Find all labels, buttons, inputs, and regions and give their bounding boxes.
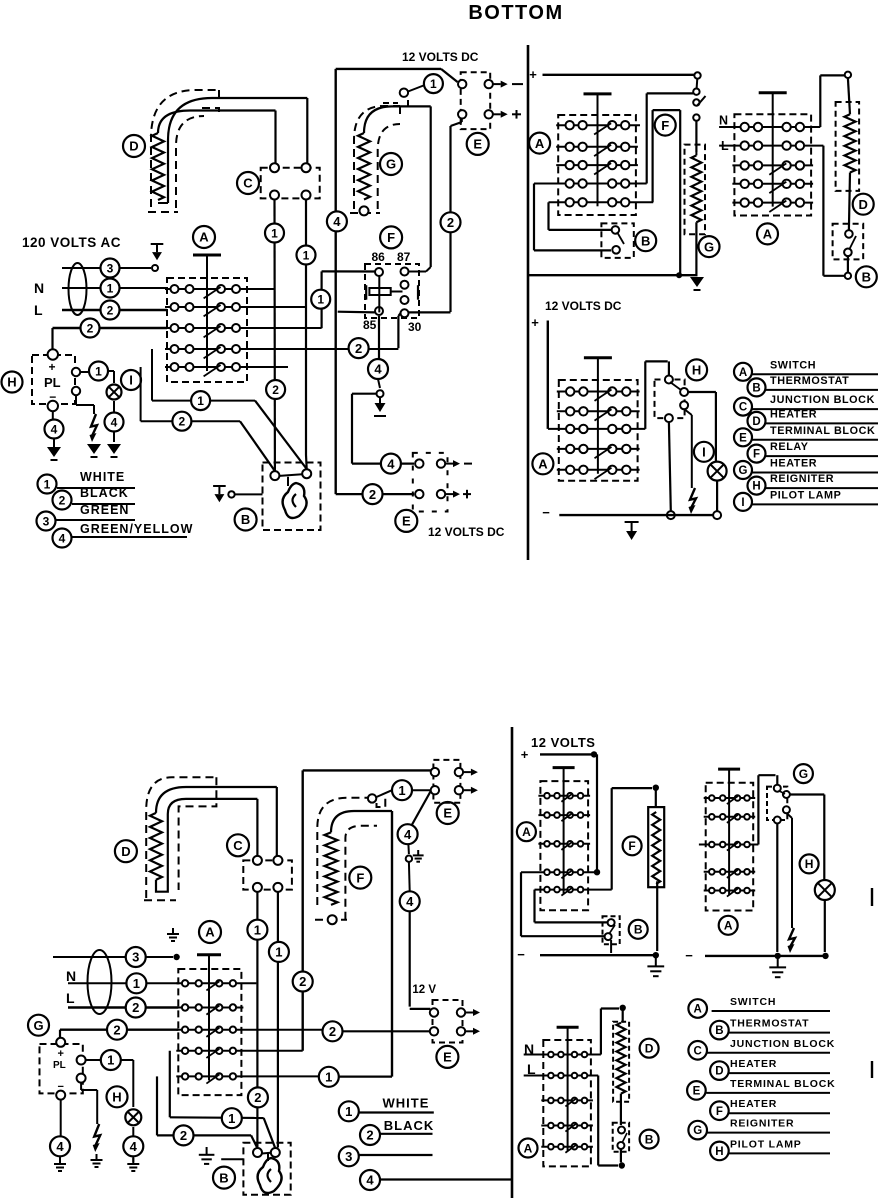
svg-text:1: 1 <box>271 226 278 240</box>
svg-text:1: 1 <box>133 976 140 991</box>
svg-text:+: + <box>48 360 55 374</box>
svg-text:2: 2 <box>254 1090 261 1105</box>
svg-text:E: E <box>443 1050 452 1065</box>
svg-text:2: 2 <box>272 383 279 397</box>
svg-text:4: 4 <box>404 827 412 842</box>
svg-text:B: B <box>219 1170 228 1185</box>
svg-text:WHITE: WHITE <box>80 470 125 484</box>
svg-text:G: G <box>704 239 714 254</box>
svg-text:I: I <box>129 373 133 388</box>
svg-text:PILOT LAMP: PILOT LAMP <box>730 1138 802 1150</box>
svg-text:4: 4 <box>387 456 395 471</box>
svg-text:4: 4 <box>366 1173 374 1188</box>
svg-text:JUNCTION BLOCK: JUNCTION BLOCK <box>770 394 875 406</box>
svg-text:3: 3 <box>43 514 50 528</box>
svg-text:1: 1 <box>197 394 204 408</box>
svg-text:D: D <box>752 416 760 428</box>
svg-text:+: + <box>57 1048 63 1060</box>
svg-text:2: 2 <box>113 1022 120 1037</box>
svg-text:1: 1 <box>325 1069 332 1084</box>
svg-text:F: F <box>661 118 669 133</box>
svg-text:I: I <box>702 444 706 459</box>
svg-text:A: A <box>739 367 747 379</box>
svg-text:3: 3 <box>345 1149 352 1164</box>
svg-text:H: H <box>7 375 16 390</box>
svg-text:2: 2 <box>447 215 454 230</box>
svg-text:30: 30 <box>408 320 422 334</box>
svg-text:86: 86 <box>372 250 386 264</box>
svg-text:E: E <box>473 137 482 152</box>
svg-text:REIGNITER: REIGNITER <box>770 473 834 485</box>
svg-text:A: A <box>694 1004 702 1016</box>
svg-text:E: E <box>739 432 747 444</box>
svg-text:JUNCTION BLOCK: JUNCTION BLOCK <box>730 1038 835 1050</box>
svg-text:C: C <box>233 838 243 853</box>
svg-text:2: 2 <box>369 487 376 502</box>
svg-text:1: 1 <box>44 477 51 491</box>
svg-text:HEATER: HEATER <box>770 458 817 470</box>
svg-text:THERMOSTAT: THERMOSTAT <box>730 1018 809 1030</box>
svg-text:1: 1 <box>345 1104 352 1119</box>
svg-text:2: 2 <box>329 1024 336 1039</box>
svg-text:D: D <box>645 1042 654 1056</box>
svg-text:4: 4 <box>406 894 414 909</box>
svg-text:N: N <box>719 114 728 128</box>
svg-text:HEATER: HEATER <box>730 1098 777 1110</box>
svg-text:H: H <box>692 363 701 378</box>
svg-text:HEATER: HEATER <box>770 408 817 420</box>
svg-text:C: C <box>739 402 747 414</box>
svg-text:G: G <box>799 767 808 781</box>
svg-text:F: F <box>628 839 635 853</box>
svg-text:G: G <box>693 1125 702 1137</box>
svg-text:1: 1 <box>107 281 114 295</box>
svg-text:WHITE: WHITE <box>383 1096 430 1111</box>
svg-text:D: D <box>715 1066 723 1078</box>
svg-text:2: 2 <box>179 415 186 429</box>
svg-text:3: 3 <box>107 261 114 275</box>
svg-text:12 VOLTS DC: 12 VOLTS DC <box>428 525 505 539</box>
svg-text:B: B <box>715 1025 723 1037</box>
svg-text:B: B <box>862 269 871 284</box>
svg-text:N: N <box>34 280 44 296</box>
svg-text:D: D <box>121 844 130 859</box>
svg-text:BLACK: BLACK <box>384 1118 435 1133</box>
svg-text:2: 2 <box>355 341 362 356</box>
svg-text:120 VOLTS AC: 120 VOLTS AC <box>22 235 121 250</box>
svg-text:H: H <box>112 1089 121 1104</box>
svg-text:H: H <box>752 481 760 493</box>
svg-text:2: 2 <box>87 321 94 335</box>
svg-text:F: F <box>753 449 760 461</box>
svg-text:1: 1 <box>303 248 310 262</box>
svg-text:A: A <box>538 456 548 471</box>
svg-text:B: B <box>634 923 643 937</box>
svg-text:G: G <box>386 157 396 172</box>
svg-text:TERMINAL BLOCK: TERMINAL BLOCK <box>770 425 875 437</box>
svg-text:+: + <box>521 747 529 762</box>
svg-text:F: F <box>356 870 364 885</box>
svg-text:4: 4 <box>56 1139 64 1154</box>
svg-text:4: 4 <box>333 214 341 229</box>
svg-text:A: A <box>205 925 215 940</box>
svg-text:HEATER: HEATER <box>730 1058 777 1070</box>
svg-text:A: A <box>524 1141 533 1155</box>
svg-text:I: I <box>741 497 744 509</box>
svg-text:E: E <box>693 1086 701 1098</box>
svg-text:1: 1 <box>317 293 324 307</box>
svg-text:REIGNITER: REIGNITER <box>730 1118 794 1130</box>
svg-text:F: F <box>387 230 395 245</box>
svg-text:4: 4 <box>59 531 66 545</box>
svg-text:+: + <box>529 67 537 82</box>
svg-text:4: 4 <box>111 415 118 429</box>
svg-text:1: 1 <box>228 1111 235 1126</box>
svg-text:RELAY: RELAY <box>770 441 809 453</box>
svg-text:12 VOLTS DC: 12 VOLTS DC <box>545 299 622 313</box>
svg-text:1: 1 <box>95 364 102 378</box>
svg-text:D: D <box>859 197 868 212</box>
svg-text:SWITCH: SWITCH <box>730 996 776 1008</box>
svg-text:12 VOLTS DC: 12 VOLTS DC <box>402 50 479 64</box>
svg-text:2: 2 <box>107 303 114 317</box>
svg-text:4: 4 <box>130 1139 138 1154</box>
svg-text:L: L <box>34 302 43 318</box>
svg-text:A: A <box>535 136 545 151</box>
svg-text:SWITCH: SWITCH <box>770 359 816 371</box>
svg-text:G: G <box>739 465 748 477</box>
svg-text:1: 1 <box>254 922 261 937</box>
svg-text:2: 2 <box>132 1000 139 1015</box>
svg-text:A: A <box>522 825 531 839</box>
svg-text:D: D <box>129 139 138 154</box>
svg-text:G: G <box>33 1018 43 1033</box>
svg-text:+: + <box>531 315 539 330</box>
svg-text:PL: PL <box>44 375 61 390</box>
svg-text:PL: PL <box>53 1060 66 1071</box>
svg-text:H: H <box>805 857 814 871</box>
svg-text:THERMOSTAT: THERMOSTAT <box>770 375 849 387</box>
svg-text:C: C <box>694 1045 702 1057</box>
svg-text:−: − <box>685 948 693 963</box>
svg-text:4: 4 <box>51 422 58 436</box>
svg-text:−: − <box>517 947 525 962</box>
svg-text:12 VOLTS: 12 VOLTS <box>531 735 595 750</box>
svg-text:2: 2 <box>366 1128 373 1143</box>
svg-text:−: − <box>542 505 550 520</box>
svg-text:1: 1 <box>107 1053 114 1068</box>
svg-text:87: 87 <box>397 250 411 264</box>
svg-text:PILOT LAMP: PILOT LAMP <box>770 489 841 501</box>
svg-text:E: E <box>402 514 411 529</box>
svg-text:B: B <box>645 1132 654 1146</box>
svg-text:85: 85 <box>363 318 377 332</box>
svg-text:12 V: 12 V <box>412 984 436 996</box>
svg-text:BOTTOM: BOTTOM <box>468 2 563 24</box>
svg-text:GREEN: GREEN <box>80 503 129 517</box>
svg-text:GREEN/YELLOW: GREEN/YELLOW <box>80 522 193 536</box>
svg-text:B: B <box>752 383 760 395</box>
svg-text:1: 1 <box>430 77 437 91</box>
svg-text:1: 1 <box>398 783 405 798</box>
svg-text:L: L <box>66 990 75 1006</box>
svg-text:A: A <box>724 919 733 933</box>
svg-text:2: 2 <box>299 974 306 989</box>
svg-text:C: C <box>243 176 253 191</box>
svg-text:2: 2 <box>180 1128 187 1143</box>
svg-text:2: 2 <box>59 493 66 507</box>
svg-text:3: 3 <box>132 950 139 965</box>
svg-text:TERMINAL BLOCK: TERMINAL BLOCK <box>730 1078 836 1090</box>
svg-text:H: H <box>715 1146 723 1158</box>
svg-text:B: B <box>641 233 650 248</box>
svg-text:4: 4 <box>374 362 382 377</box>
svg-text:B: B <box>241 512 250 527</box>
svg-text:BLACK: BLACK <box>80 486 129 500</box>
svg-text:E: E <box>443 806 452 821</box>
svg-text:F: F <box>716 1106 723 1118</box>
svg-text:A: A <box>763 227 773 242</box>
svg-text:N: N <box>66 968 76 984</box>
svg-text:A: A <box>199 230 209 245</box>
svg-text:1: 1 <box>275 945 282 960</box>
